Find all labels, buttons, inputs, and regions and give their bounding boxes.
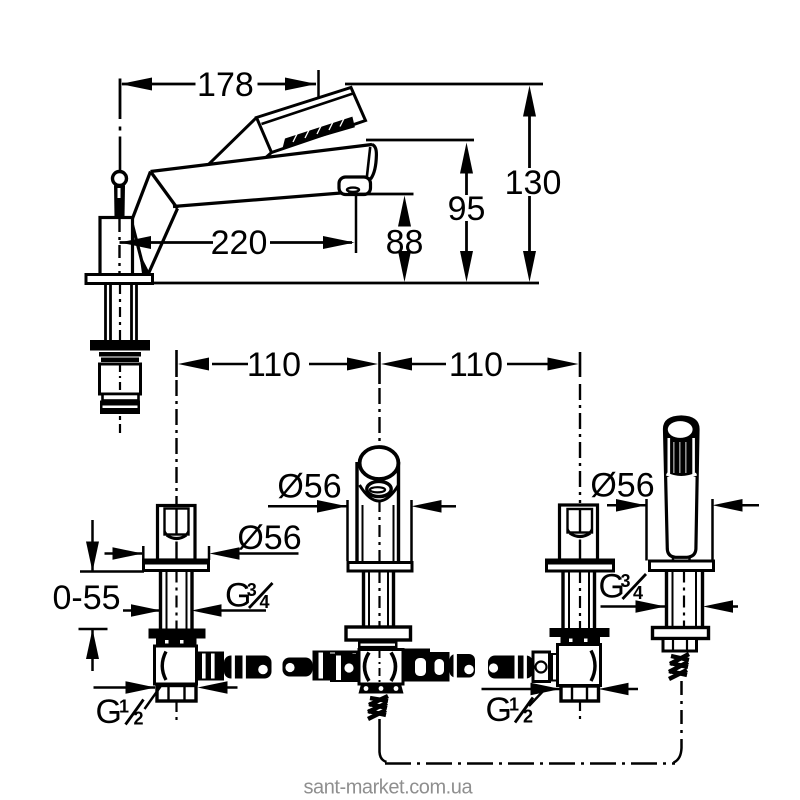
dim 110 row [177,350,581,384]
svg-text:3: 3 [621,571,631,591]
centerline left valve [175,380,177,504]
spout column centerline below [119,416,121,435]
extension line x356 [355,194,358,253]
svg-text:130: 130 [505,164,562,202]
label G1/2 left [94,681,238,709]
hose right: nut stripes [430,652,450,682]
hose left: blob2 [283,658,313,677]
spout lever handle [257,88,366,153]
svg-text:4: 4 [260,592,270,612]
left valve thin nut [156,639,197,646]
svg-text:1: 1 [119,697,129,717]
center unit right port [403,649,430,682]
spout column circle top [113,172,127,186]
dim 95 [460,143,473,283]
label Ø56 shower [607,499,759,561]
spout aerator outlet [339,177,371,195]
svg-text:110: 110 [247,346,301,384]
svg-text:3: 3 [247,580,257,600]
hose left: nut stripes [313,651,360,681]
lever grip hatch stripe [283,115,355,149]
hand shower grip bottom arc [667,474,697,478]
right valve body [558,645,601,686]
dim 130 [523,86,536,283]
center unit line down [380,719,387,762]
svg-text:178: 178 [197,66,254,104]
hand shower nut [663,639,697,652]
ref line 95 [366,139,474,142]
left valve bottom nut [157,686,196,702]
center unit skirt [359,684,404,694]
spout hose fitting [100,364,141,414]
center unit washer [346,627,411,640]
svg-text:sant-market.com.ua: sant-market.com.ua [304,777,474,799]
hand shower washer [653,628,709,639]
center unit body [359,650,403,685]
hand shower head black cap and grip [665,417,699,481]
svg-text:0-55: 0-55 [52,579,120,617]
label G3/4 shower [601,600,739,613]
right valve thin nut [561,637,601,644]
label G3/4 left [123,604,266,617]
center unit flange [348,563,412,572]
spout deck flange [86,275,153,284]
right valve shank [563,571,595,628]
svg-text:88: 88 [386,224,424,262]
svg-text:95: 95 [448,190,486,228]
right valve locknut [550,628,610,637]
hand shower spring [669,654,689,679]
label Ø56 left valve [105,546,299,560]
center unit knob [360,447,399,479]
left valve shank [161,571,193,629]
centerline right valve [579,384,581,503]
center unit spring [368,696,388,719]
ref line 88 [348,193,414,196]
svg-text:Ø56: Ø56 [277,468,341,506]
left valve locknut [149,629,206,639]
dim 88 [398,196,411,283]
left valve flange [144,560,209,571]
spout threaded shank below deck [106,284,137,340]
left valve handle [158,506,196,561]
dim 220 [120,236,355,249]
spout shank band1 [99,352,141,362]
dim 178 line [120,70,319,136]
svg-text:G: G [486,691,512,729]
centerline middle unit [378,388,380,445]
label Ø56 center [268,500,456,562]
right valve left port [550,653,562,682]
center unit cylinder [357,462,399,563]
hose left: blob1 [224,656,272,679]
right valve centerline below [579,702,581,722]
spout neck lines [209,118,272,165]
svg-text:Ø56: Ø56 [590,467,654,505]
svg-text:220: 220 [211,224,268,262]
left valve side port [197,652,225,681]
ref line top (130 upper reference) [345,83,543,86]
spout column stem [114,186,125,218]
hose right: blob2 [488,656,533,679]
spout column body [100,218,133,276]
hand shower neck [672,557,675,562]
center unit mouth [360,481,399,501]
centerline spout column upper [119,127,122,171]
hand shower flange [650,561,714,571]
svg-text:2: 2 [134,709,144,729]
hand shower shank [667,571,703,628]
center unit shank [364,571,394,627]
hose right: end fitting [533,652,550,682]
hose right: blob1 [450,654,476,678]
hose route dash-dot [385,681,682,764]
svg-text:1: 1 [509,695,519,715]
spout shank locknut [90,340,150,351]
left valve body [155,646,197,684]
svg-text:110: 110 [449,346,503,384]
dim 0-55 [79,520,145,671]
center unit band [358,640,398,650]
right valve handle [560,505,598,560]
deck line [153,282,540,285]
hand shower wand [665,417,699,557]
left valve centerline below [175,702,177,725]
svg-text:2: 2 [523,707,533,727]
label G1/2 right [482,683,639,706]
center unit left port [330,654,359,683]
spout left wedge to flange [132,172,178,274]
svg-text:Ø56: Ø56 [237,519,301,557]
svg-text:G: G [96,693,122,731]
svg-text:4: 4 [633,583,643,603]
right valve flange [547,560,614,571]
spout body [151,145,377,209]
right valve bottom nut [561,686,599,701]
